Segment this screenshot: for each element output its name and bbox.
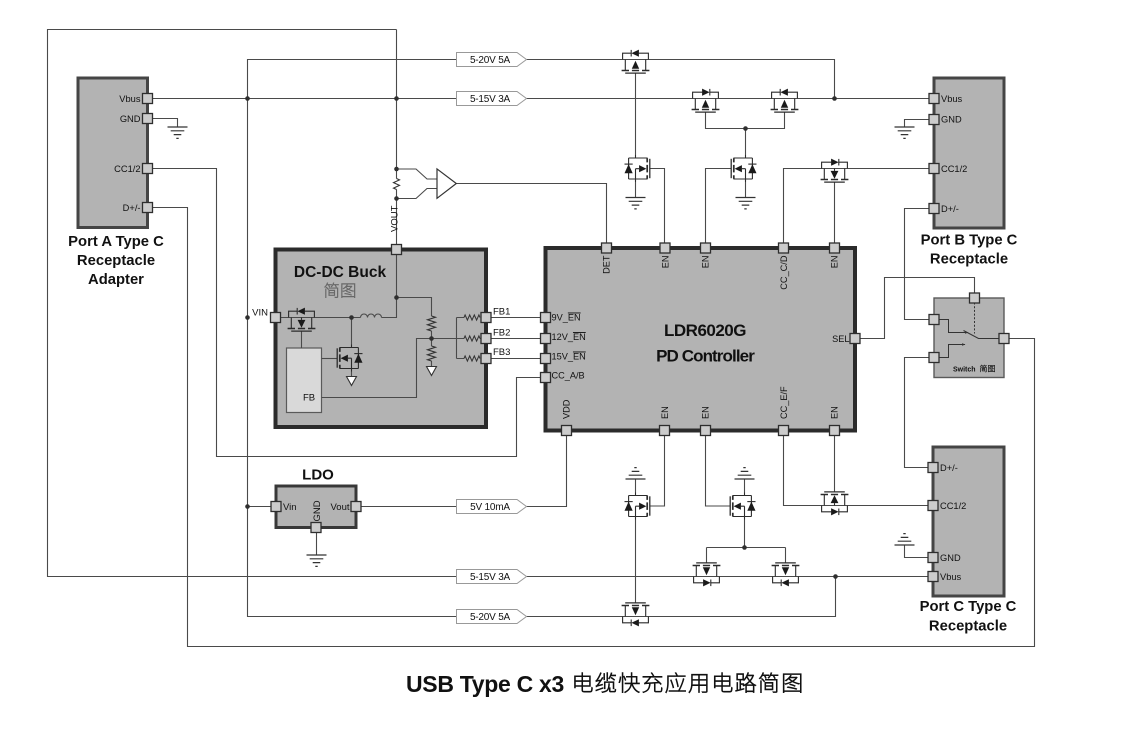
svg-text:Port B Type C: Port B Type C [921,233,1018,249]
svg-text:Vout: Vout [330,502,349,513]
svg-text:GND: GND [312,500,323,521]
svg-text:5-20V 5A: 5-20V 5A [470,55,511,66]
svg-text:5V 10mA: 5V 10mA [470,502,510,513]
svg-text:Vbus: Vbus [940,572,962,582]
svg-text:GND: GND [941,115,962,125]
svg-text:Vbus: Vbus [941,94,963,104]
svg-text:FB3: FB3 [493,347,510,358]
svg-text:LDO: LDO [302,467,334,484]
svg-text:USB Type C x3: USB Type C x3 [406,671,564,697]
svg-text:5-20V 5A: 5-20V 5A [470,612,511,623]
svg-text:VIN: VIN [252,308,268,319]
svg-text:FB1: FB1 [493,307,510,318]
svg-text:GND: GND [120,114,141,124]
svg-text:LDR6020G: LDR6020G [664,321,746,340]
svg-text:CC_A/B: CC_A/B [552,371,585,381]
svg-text:D+/-: D+/- [941,204,959,214]
svg-text:Adapter: Adapter [88,272,144,288]
svg-text:5-15V 3A: 5-15V 3A [470,572,511,583]
svg-text:D+/-: D+/- [940,463,958,473]
svg-text:5-15V 3A: 5-15V 3A [470,94,511,105]
svg-text:Switch: Switch [953,367,976,374]
svg-text:EN: EN [660,256,670,269]
svg-text:DET: DET [601,255,611,274]
svg-text:EN: EN [829,256,839,269]
svg-text:EN: EN [660,406,670,419]
svg-text:Receptacle: Receptacle [929,619,1007,635]
svg-text:PD Controller: PD Controller [656,347,755,366]
svg-text:SEL: SEL [832,334,849,344]
svg-text:CC1/2: CC1/2 [941,164,967,174]
svg-text:Vbus: Vbus [119,94,141,104]
svg-text:D+/-: D+/- [123,203,141,213]
svg-text:12V_EN: 12V_EN [552,332,586,342]
svg-text:9V_EN: 9V_EN [552,313,581,323]
svg-text:Vin: Vin [283,502,297,513]
svg-text:CC1/2: CC1/2 [114,164,140,174]
svg-text:EN: EN [700,256,710,269]
svg-text:15V_EN: 15V_EN [552,352,586,362]
svg-text:Port A Type C: Port A Type C [68,234,164,250]
svg-text:CC_C/D: CC_C/D [779,255,789,290]
svg-text:EN: EN [829,406,839,419]
svg-text:Port C Type C: Port C Type C [920,599,1017,615]
svg-text:CC_E/F: CC_E/F [779,386,789,419]
svg-text:FB2: FB2 [493,328,510,339]
svg-text:VOUT: VOUT [390,205,401,232]
svg-text:GND: GND [940,553,961,563]
svg-text:EN: EN [700,406,710,419]
svg-text:DC-DC Buck: DC-DC Buck [294,264,387,281]
svg-text:VDD: VDD [561,399,571,419]
svg-text:Receptacle: Receptacle [930,252,1008,268]
svg-text:CC1/2: CC1/2 [940,501,966,511]
svg-text:Receptacle: Receptacle [77,253,155,269]
svg-text:FB: FB [303,393,315,404]
